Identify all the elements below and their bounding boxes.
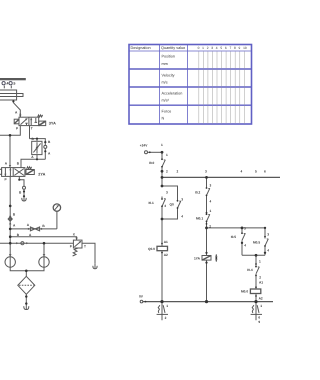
svg-text:2: 2 bbox=[259, 276, 261, 280]
svg-text:M0.0: M0.0 bbox=[241, 290, 248, 294]
svg-text:B: B bbox=[42, 224, 45, 228]
svg-text:2: 2 bbox=[207, 46, 209, 50]
svg-text:3: 3 bbox=[205, 170, 207, 174]
svg-text:A1: A1 bbox=[164, 240, 168, 244]
svg-text:3: 3 bbox=[210, 184, 212, 188]
svg-text:Quantity value: Quantity value bbox=[161, 46, 185, 50]
svg-text:X: X bbox=[73, 233, 76, 237]
svg-text:9: 9 bbox=[239, 46, 241, 50]
svg-text:4: 4 bbox=[267, 248, 269, 252]
svg-text:m/s: m/s bbox=[162, 81, 168, 85]
svg-text:2: 2 bbox=[166, 170, 168, 174]
svg-text:.4: .4 bbox=[6, 82, 9, 86]
svg-text:4: 4 bbox=[164, 204, 166, 208]
svg-text:8: 8 bbox=[234, 46, 236, 50]
svg-text:6: 6 bbox=[258, 316, 260, 320]
svg-text:mm: mm bbox=[162, 62, 168, 66]
svg-text:7: 7 bbox=[229, 46, 231, 50]
svg-text:Q0.0: Q0.0 bbox=[148, 247, 155, 251]
svg-text:+24V: +24V bbox=[140, 144, 148, 148]
svg-text:A: A bbox=[13, 223, 16, 227]
svg-text:3: 3 bbox=[267, 233, 269, 237]
svg-text:N: N bbox=[162, 117, 165, 121]
svg-text:I0.0: I0.0 bbox=[149, 161, 155, 165]
svg-text:A: A bbox=[15, 110, 18, 114]
svg-text:B: B bbox=[17, 162, 20, 166]
svg-text:0V: 0V bbox=[139, 295, 144, 299]
svg-text:M0.5: M0.5 bbox=[253, 241, 260, 245]
svg-text:4: 4 bbox=[181, 215, 183, 219]
svg-text:5: 5 bbox=[255, 170, 257, 174]
svg-text:9: 9 bbox=[258, 320, 260, 324]
svg-text:T: T bbox=[84, 244, 86, 248]
svg-text:Acceleration: Acceleration bbox=[162, 92, 183, 96]
svg-text:4: 4 bbox=[244, 243, 246, 247]
svg-text:6: 6 bbox=[225, 46, 227, 50]
svg-text:Position: Position bbox=[162, 55, 176, 59]
svg-text:2: 2 bbox=[209, 224, 211, 228]
svg-text:B: B bbox=[48, 140, 51, 144]
svg-text:1: 1 bbox=[166, 304, 168, 308]
svg-text:I0.5: I0.5 bbox=[231, 235, 237, 239]
svg-text:4: 4 bbox=[216, 46, 218, 50]
svg-text:6: 6 bbox=[264, 170, 266, 174]
svg-text:3: 3 bbox=[166, 190, 168, 194]
svg-text:3: 3 bbox=[181, 198, 183, 202]
svg-text:.5: .5 bbox=[13, 82, 16, 86]
svg-text:3: 3 bbox=[211, 46, 213, 50]
svg-text:1: 1 bbox=[210, 209, 212, 213]
svg-text:I0.1: I0.1 bbox=[149, 201, 155, 205]
svg-text:P: P bbox=[16, 126, 19, 130]
svg-text:1: 1 bbox=[260, 304, 262, 308]
svg-text:A2: A2 bbox=[164, 253, 168, 257]
svg-text:4: 4 bbox=[241, 170, 243, 174]
svg-text:m/s²: m/s² bbox=[162, 99, 170, 103]
svg-text:1: 1 bbox=[202, 46, 204, 50]
svg-text:B: B bbox=[19, 190, 22, 194]
svg-text:1: 1 bbox=[161, 143, 163, 147]
svg-text:M0.1: M0.1 bbox=[196, 217, 203, 221]
svg-text:1: 1 bbox=[259, 259, 261, 263]
svg-text:P: P bbox=[5, 178, 8, 182]
svg-text:1: 1 bbox=[166, 153, 168, 157]
svg-text:2: 2 bbox=[165, 316, 167, 320]
svg-text:5: 5 bbox=[220, 46, 222, 50]
svg-text:A: A bbox=[27, 223, 30, 227]
svg-text:A2: A2 bbox=[259, 296, 263, 300]
svg-text:4: 4 bbox=[210, 199, 212, 203]
svg-text:10: 10 bbox=[243, 46, 247, 50]
svg-text:Force: Force bbox=[162, 110, 172, 114]
svg-text:Velocity: Velocity bbox=[162, 74, 175, 78]
svg-text:A: A bbox=[31, 155, 34, 159]
svg-text:2: 2 bbox=[177, 170, 179, 174]
svg-text:B: B bbox=[13, 212, 16, 216]
svg-text:I0.4: I0.4 bbox=[247, 268, 253, 272]
svg-text:2YA: 2YA bbox=[38, 172, 45, 176]
svg-text:P: P bbox=[70, 244, 73, 248]
svg-text:A: A bbox=[48, 152, 51, 156]
svg-text:3: 3 bbox=[244, 226, 246, 230]
svg-text:A1: A1 bbox=[259, 280, 263, 284]
svg-text:T: T bbox=[31, 126, 33, 130]
svg-text:Designation: Designation bbox=[131, 46, 151, 50]
svg-text:Q0: Q0 bbox=[170, 203, 174, 207]
svg-text:1YA: 1YA bbox=[194, 257, 201, 261]
svg-text:A: A bbox=[5, 162, 8, 166]
svg-text:0: 0 bbox=[198, 46, 200, 50]
svg-text:3YA: 3YA bbox=[49, 122, 56, 126]
svg-text:I0.2: I0.2 bbox=[195, 191, 201, 195]
